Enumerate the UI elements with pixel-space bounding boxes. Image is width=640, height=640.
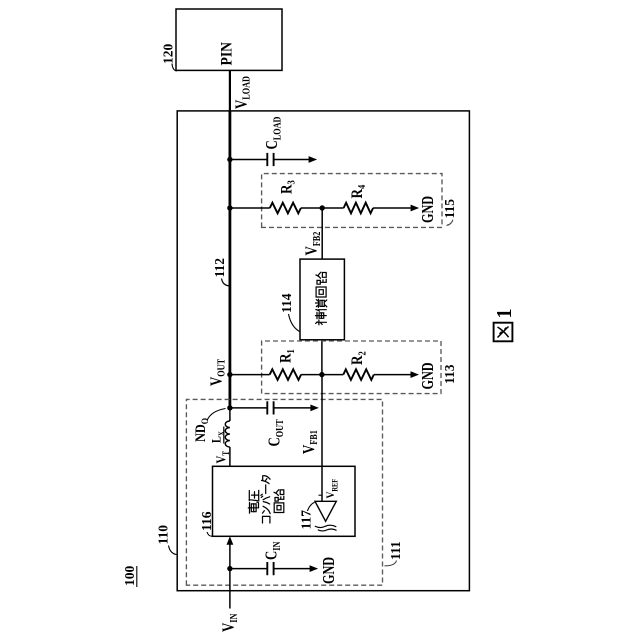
svg-text:117: 117	[299, 510, 314, 530]
squiggle lines at amp output	[315, 525, 337, 527]
svg-text:1: 1	[494, 309, 517, 319]
voltage converter box 116	[213, 466, 356, 536]
resistor R3	[270, 203, 301, 214]
capacitor C_IN	[266, 562, 268, 575]
svg-text:PIN: PIN	[219, 42, 236, 66]
dashed box 115 (divider R3 R4)	[262, 174, 442, 228]
wire V_FB2 (box114 to divider)	[321, 208, 323, 259]
svg-text:GND: GND	[419, 196, 437, 223]
capacitor C_LOAD	[266, 153, 268, 166]
text 電圧 line1 in box116	[249, 503, 251, 513]
junction dot R3 tap	[227, 205, 232, 210]
node V_FB2 dot	[320, 205, 325, 210]
resistor R4	[344, 203, 374, 214]
outer box 110 (regulator system)	[177, 111, 469, 591]
svg-text:114: 114	[279, 293, 294, 313]
svg-text:GND: GND	[320, 557, 338, 584]
text 補償回路 in box 114	[316, 322, 318, 324]
ground arrow R2	[411, 371, 420, 378]
dashed box 113 (divider R1 R2)	[262, 341, 441, 394]
wire R1 to R2	[301, 374, 343, 376]
svg-text:GND: GND	[419, 362, 437, 389]
svg-text:110: 110	[155, 525, 170, 545]
ground arrow C_IN	[310, 565, 319, 572]
node ND_O junction dot	[227, 405, 232, 410]
wire V_LOAD (outer box to PIN box)	[229, 70, 231, 111]
arrow into V_FB1 wire	[310, 405, 319, 412]
arrow V_IN into box116	[227, 536, 234, 545]
op-amp U117 triangle	[315, 501, 336, 521]
wire C_LOAD to ground arrow	[274, 159, 310, 161]
ground arrow C_LOAD	[309, 156, 318, 163]
wire R2 to ground arrow	[374, 374, 411, 376]
svg-text:113: 113	[442, 364, 457, 384]
junction dot C_LOAD tap	[227, 157, 232, 162]
wire V_T (box116 to inductor)	[229, 447, 231, 466]
compensation circuit box 114	[300, 259, 344, 340]
resistor R1	[270, 369, 301, 380]
svg-text:115: 115	[442, 199, 457, 219]
node V_FB1 dot	[319, 372, 324, 377]
resistor R2	[343, 369, 374, 380]
capacitor C_LOAD branch wire	[230, 159, 267, 161]
tick for V_REF	[319, 494, 323, 496]
junction dot R1 tap	[227, 372, 232, 377]
text コンバータ line2 in box116	[263, 516, 270, 523]
svg-text:111: 111	[388, 541, 403, 560]
wire R3 to R4	[301, 207, 344, 209]
svg-text:112: 112	[212, 258, 227, 278]
wire V_IN input	[229, 544, 231, 609]
caption 図1	[494, 323, 513, 342]
dashed box 111 (converter block)	[186, 399, 382, 585]
wire bus to R1	[230, 374, 270, 376]
junction dot C_IN tap	[227, 566, 232, 571]
svg-text:100: 100	[122, 566, 137, 587]
wire box114 to R1R2 node	[321, 340, 323, 375]
wire C_OUT to arrow	[274, 407, 311, 409]
wire C_IN to ground arrow	[274, 568, 310, 570]
wire bus to R3	[230, 207, 270, 209]
capacitor C_OUT branch wire	[230, 407, 267, 409]
svg-text:120: 120	[160, 44, 175, 65]
svg-text:116: 116	[199, 511, 214, 531]
capacitor C_IN branch wire	[230, 568, 267, 570]
wire V_FB1 (node to amplifier)	[321, 375, 323, 502]
wire R4 to ground arrow	[373, 207, 411, 209]
inductor L_X	[225, 421, 230, 447]
ground arrow R4	[411, 205, 420, 212]
load box 120	[176, 9, 282, 70]
capacitor C_OUT	[266, 401, 268, 414]
text 回路 line3 in box116	[274, 503, 284, 513]
wire main output bus 112	[228, 111, 231, 409]
schematic drawn in landscape, rotated 90deg CCW	[122, 9, 516, 632]
